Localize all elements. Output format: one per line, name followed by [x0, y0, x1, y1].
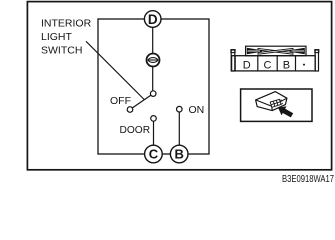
svg-text:B: B	[283, 60, 290, 72]
svg-text:B: B	[175, 147, 184, 162]
svg-text:ON: ON	[189, 104, 205, 116]
svg-text:C: C	[149, 147, 159, 162]
svg-text:LIGHT: LIGHT	[41, 31, 73, 43]
svg-text:C: C	[264, 60, 272, 72]
svg-text:SWITCH: SWITCH	[41, 45, 82, 57]
svg-text:DOOR: DOOR	[120, 125, 151, 136]
svg-text:INTERIOR: INTERIOR	[41, 18, 92, 30]
svg-text:D: D	[243, 60, 251, 72]
svg-text:B3E0918WA17: B3E0918WA17	[282, 174, 334, 185]
svg-text:D: D	[148, 12, 158, 27]
svg-text:OFF: OFF	[110, 95, 131, 107]
